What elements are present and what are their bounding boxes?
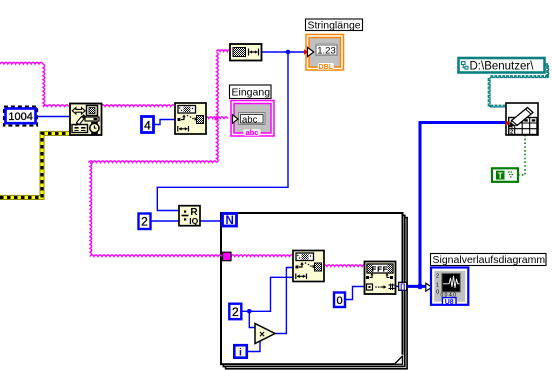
string subset function 1 [175, 103, 206, 134]
numeric constant 0 [334, 293, 345, 308]
selection marquee [4, 107, 37, 126]
svg-text:[]: [] [400, 282, 405, 291]
hexadecimal string to number function [365, 262, 396, 295]
wire array tunnel to chart [407, 285, 428, 288]
wire i to multiply [247, 338, 261, 352]
svg-text:4: 4 [144, 119, 151, 133]
wire string branch up to String Length [217, 50, 231, 119]
wire Hex-to-Number to tunnel [395, 285, 399, 287]
for-loop main frame [221, 213, 403, 364]
for-loop shadow frame 2 [226, 218, 408, 369]
svg-text:1: 1 [436, 283, 439, 289]
svg-text:Eingang: Eingang [232, 87, 271, 99]
wire 0 to Hex-to-Number [345, 287, 366, 300]
svg-text:2: 2 [141, 215, 148, 229]
label Eingang [230, 85, 272, 99]
wire string VISA out to String Subset 1 [101, 105, 175, 107]
wire string Subset1 output to Eingang [205, 117, 228, 119]
for-loop iteration terminal i [234, 345, 247, 358]
wire Quotient-Remainder to N [200, 220, 223, 222]
indicator Signalverlaufsdiagramm waveform chart terminal [426, 268, 469, 307]
for-loop count terminal N [223, 214, 237, 228]
indicator Stringlaenge DBL [304, 35, 344, 71]
for-loop shadow frame 1 [223, 215, 404, 366]
numeric constant 2 [139, 214, 151, 230]
svg-text:1004: 1004 [8, 111, 32, 123]
junction length wire [286, 50, 291, 55]
wire string VISA-in from left edge [0, 62, 69, 107]
svg-text:FFF: FFF [372, 265, 389, 274]
control Eingang string [231, 101, 274, 138]
svg-text:abc: abc [246, 128, 259, 137]
wire 2 branch to multiply [249, 311, 256, 327]
wire multiply to Subset2 offset [275, 268, 293, 334]
svg-text:U8: U8 [445, 299, 454, 306]
wire boolean T to spreadsheet VI [518, 135, 525, 175]
numeric constant 2 in loop [229, 304, 241, 320]
wire string branch down-left to loop tunnel [89, 119, 223, 257]
wire length branch to Quotient-Remainder [157, 52, 288, 211]
svg-text:0: 0 [336, 295, 342, 307]
wire string tunnel to String Subset 2 [231, 255, 293, 257]
for-loop folded corner [394, 355, 403, 365]
quotient and remainder function [179, 206, 200, 226]
wire path constant to spreadsheet VI [488, 64, 548, 107]
wire array branch up to spreadsheet VI [420, 123, 505, 287]
write to spreadsheet file VI [506, 103, 538, 136]
wire 1004 to VISA icon [36, 116, 70, 118]
svg-text:N: N [226, 215, 234, 227]
VISA configure serial port VI [70, 104, 102, 136]
junction 2-wire [247, 309, 252, 314]
string subset function 2 [293, 251, 324, 282]
svg-text:IQ: IQ [189, 216, 198, 226]
wire 2 to Subset2 length [241, 277, 293, 311]
svg-text:1.23: 1.23 [317, 45, 336, 56]
multiply function [255, 324, 275, 344]
boolean constant T [492, 168, 518, 182]
svg-text:Signalverlaufsdiagramm: Signalverlaufsdiagramm [433, 254, 546, 266]
svg-text:Stringlänge: Stringlänge [308, 19, 361, 31]
string length function [230, 44, 262, 61]
wire 4 to Subset1 offset [154, 120, 176, 125]
svg-text:0: 0 [436, 290, 439, 296]
svg-text:2: 2 [232, 305, 239, 319]
wire 2 to Quotient-Remainder [151, 220, 180, 222]
svg-text:2: 2 [436, 274, 439, 280]
loop tunnel array output [399, 282, 407, 291]
label Stringlaenge [306, 19, 363, 31]
svg-text:T: T [498, 170, 504, 180]
svg-text:D:\Benutzer\: D:\Benutzer\ [470, 61, 535, 73]
wire String Length to Stringlaenge indicator [262, 51, 306, 53]
svg-text:i: i [239, 347, 242, 359]
label Signalverlaufsdiagramm [431, 254, 547, 267]
numeric constant 4 [142, 117, 154, 133]
svg-text:abc: abc [242, 114, 258, 125]
loop tunnel string input [223, 252, 232, 261]
path constant D:\Benutzer\ [459, 58, 545, 73]
junction array wire [417, 284, 423, 290]
svg-text:×: × [259, 330, 265, 341]
svg-text:2: 2 [510, 130, 513, 136]
wire string Subset2 to Hex-to-Number [323, 265, 366, 267]
junction string wire [214, 116, 218, 120]
numeric constant 1004 [6, 109, 36, 124]
wire error cluster [0, 134, 70, 198]
svg-text:DBL: DBL [319, 64, 334, 71]
